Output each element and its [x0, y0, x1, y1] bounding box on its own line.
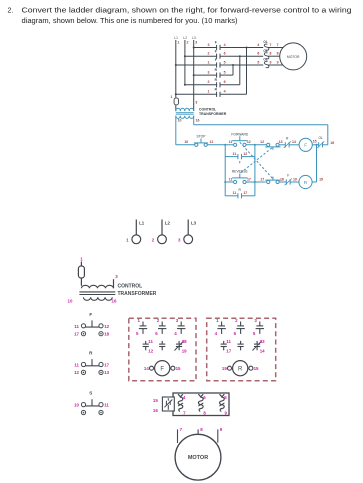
contactor F main contact 2-6 — [161, 322, 163, 326]
contactor R aux contact 1 — [223, 341, 225, 344]
wire left rail (control) — [175, 116, 177, 145]
svg-text:17: 17 — [226, 348, 231, 353]
overload relay block (wiring) — [173, 393, 229, 416]
svg-text:Convert the ladder diagram, sh: Convert the ladder diagram, shown on the… — [22, 8, 352, 15]
wire 15 — [312, 144, 318, 146]
wire rung R out — [220, 84, 240, 86]
svg-text:15: 15 — [313, 140, 317, 144]
svg-text:diagram, shown below. This one: diagram, shown below. This one is number… — [22, 18, 238, 25]
svg-text:18: 18 — [182, 339, 187, 344]
svg-text:17: 17 — [104, 363, 109, 368]
svg-text:11: 11 — [74, 324, 79, 329]
svg-text:L2: L2 — [183, 36, 187, 40]
wire 5 to OL3 — [220, 64, 263, 66]
svg-text:F: F — [89, 312, 92, 317]
svg-text:FORWARD: FORWARD — [231, 132, 248, 136]
svg-text:15: 15 — [176, 366, 181, 371]
wire rung F 1 — [176, 64, 217, 66]
svg-text:6: 6 — [257, 52, 259, 56]
svg-text:5: 5 — [224, 71, 226, 75]
svg-text:1: 1 — [208, 60, 210, 64]
svg-text:TRANSFORMER: TRANSFORMER — [118, 291, 157, 297]
contact R holding (11-17) — [237, 193, 239, 198]
wire right rail (control) — [327, 125, 329, 145]
contact F (1-5) — [216, 62, 218, 67]
svg-text:REVERSE: REVERSE — [232, 170, 249, 174]
svg-text:F: F — [239, 160, 241, 164]
transformer core (wiring) — [79, 291, 115, 293]
junction L2-rung5 — [184, 84, 186, 86]
svg-text:5: 5 — [224, 60, 226, 64]
junction L3-rung4 — [193, 74, 195, 76]
contact R (2-6) — [216, 82, 218, 87]
svg-text:STOP: STOP — [197, 135, 207, 139]
coil R — [299, 175, 312, 188]
svg-text:16: 16 — [330, 141, 334, 145]
svg-text:18: 18 — [104, 332, 109, 337]
wire aux R rung — [225, 195, 238, 197]
svg-text:CONTROL: CONTROL — [118, 284, 143, 290]
svg-text:15: 15 — [254, 366, 259, 371]
motor lead 7 — [177, 429, 179, 443]
svg-text:11: 11 — [210, 140, 214, 144]
wire 4 to OL1 — [220, 47, 263, 49]
svg-text:2.: 2. — [8, 8, 14, 15]
svg-text:13: 13 — [279, 140, 283, 144]
svg-text:19: 19 — [222, 366, 227, 371]
svg-text:7: 7 — [270, 43, 272, 47]
svg-text:OL: OL — [263, 58, 267, 62]
transformer core (ladder) — [176, 112, 194, 114]
wire branch 12/17 (right) — [254, 145, 256, 196]
wire 19 — [290, 181, 299, 183]
svg-text:MOTOR: MOTOR — [188, 455, 208, 461]
svg-text:R: R — [238, 366, 243, 372]
svg-text:16: 16 — [112, 299, 117, 304]
junction L1-rung6 — [175, 93, 177, 95]
wire to motor — [268, 64, 283, 66]
svg-text:16: 16 — [196, 119, 200, 123]
svg-text:F: F — [215, 41, 217, 45]
svg-text:9: 9 — [270, 60, 272, 64]
svg-text:13: 13 — [260, 339, 265, 344]
contact R (1-4) — [216, 92, 218, 97]
svg-text:F: F — [304, 143, 307, 149]
svg-text:MOTOR: MOTOR — [287, 55, 300, 59]
coil F — [299, 138, 312, 151]
svg-text:2: 2 — [208, 80, 210, 84]
wire 13 — [279, 144, 285, 146]
svg-text:4: 4 — [224, 90, 226, 94]
svg-text:TRANSFORMER: TRANSFORMER — [199, 112, 227, 116]
svg-text:S: S — [89, 391, 92, 396]
svg-text:19: 19 — [293, 177, 297, 181]
control transformer secondary (wiring) — [83, 297, 112, 300]
wire rung F 3 — [194, 47, 217, 49]
svg-text:3: 3 — [195, 40, 197, 44]
wire 17 — [246, 181, 266, 183]
svg-text:8: 8 — [270, 52, 272, 56]
svg-text:10: 10 — [74, 403, 79, 408]
svg-text:L3: L3 — [191, 220, 197, 225]
svg-text:10: 10 — [68, 299, 73, 304]
motor MOTOR (wiring) — [175, 434, 221, 480]
wire L1 rail — [175, 40, 177, 98]
svg-text:14: 14 — [260, 348, 265, 353]
svg-text:3: 3 — [208, 43, 210, 47]
svg-text:R: R — [304, 180, 308, 186]
svg-text:15: 15 — [153, 398, 158, 403]
wire 16 — [323, 144, 328, 146]
contactor R main contact 2-6 — [240, 322, 242, 326]
wire 15 from R coil — [312, 181, 316, 183]
contactor R aux contact 3 — [256, 341, 258, 344]
svg-text:L1: L1 — [174, 36, 178, 40]
junction L2-rung2 — [184, 55, 186, 57]
svg-text:10: 10 — [184, 140, 188, 144]
control transformer secondary (ladder) — [176, 116, 194, 119]
pushbutton FORWARD NC part (17-18) — [267, 180, 270, 183]
control transformer primary (wiring) — [81, 285, 113, 288]
wire rung R out — [220, 93, 247, 95]
wire 10 — [176, 144, 195, 146]
wire rung R 1 — [176, 93, 217, 95]
contact F (3-4) — [216, 45, 218, 50]
contactor F aux contact 1 — [145, 341, 147, 344]
svg-text:19: 19 — [182, 348, 187, 353]
wire 6 crossover — [239, 56, 241, 85]
OL NC contact 15-16 (wiring) — [162, 397, 174, 411]
wire aux F rung — [225, 156, 238, 158]
svg-text:12: 12 — [260, 140, 264, 144]
svg-text:1: 1 — [170, 95, 172, 99]
svg-text:9: 9 — [277, 60, 279, 64]
svg-text:4: 4 — [224, 43, 226, 47]
svg-text:14: 14 — [144, 366, 149, 371]
svg-text:L1: L1 — [139, 220, 145, 225]
motor M (ladder) — [280, 43, 307, 70]
contactor F coil — [155, 361, 170, 376]
OL heater 6-8 (wiring) — [198, 394, 203, 411]
svg-text:11: 11 — [226, 339, 231, 344]
svg-text:14: 14 — [292, 140, 296, 144]
svg-text:11: 11 — [104, 403, 109, 408]
wire reverse rung — [225, 181, 233, 183]
svg-text:6: 6 — [224, 80, 226, 84]
OL heater 5-9 (wiring) — [220, 394, 225, 411]
contactor R main contact 1-4 — [221, 322, 223, 326]
contactor R main contact 3-5 — [259, 322, 261, 326]
svg-text:7: 7 — [277, 43, 279, 47]
wire 18 — [279, 181, 286, 183]
svg-text:2: 2 — [187, 40, 189, 44]
wire 11 — [207, 144, 233, 146]
svg-text:17: 17 — [247, 177, 251, 181]
wire 12 — [246, 144, 267, 146]
svg-text:3: 3 — [208, 71, 210, 75]
svg-text:OL: OL — [318, 136, 323, 140]
svg-text:L2: L2 — [165, 220, 171, 225]
svg-text:6: 6 — [224, 52, 226, 56]
motor lead 9 — [217, 429, 219, 442]
svg-text:17: 17 — [243, 191, 247, 195]
svg-text:1: 1 — [208, 90, 210, 94]
junction L3-rung1 — [193, 47, 195, 49]
contactor F aux contact 2 — [161, 341, 163, 344]
wire to motor — [268, 55, 280, 57]
svg-text:1: 1 — [177, 40, 179, 44]
mechanical interlock dashed link A — [240, 142, 274, 179]
control transformer primary (ladder) — [176, 108, 194, 111]
svg-text:11: 11 — [229, 177, 233, 181]
contactor F aux contact 3 — [178, 341, 180, 344]
contactor R dashed enclosure — [207, 318, 276, 381]
svg-text:11: 11 — [148, 339, 153, 344]
svg-text:OL: OL — [263, 40, 267, 44]
svg-text:8: 8 — [277, 52, 279, 56]
wire rung R 3 — [194, 74, 217, 76]
svg-text:L3: L3 — [192, 36, 196, 40]
svg-text:F: F — [287, 174, 289, 178]
svg-text:2: 2 — [208, 52, 210, 56]
contactor F dashed enclosure — [129, 318, 196, 381]
svg-text:15: 15 — [319, 177, 323, 181]
wire 14 — [289, 144, 299, 146]
wire rung R 2 — [185, 84, 217, 86]
svg-text:12: 12 — [74, 370, 79, 375]
contactor F main contact 1-5 — [142, 322, 144, 326]
svg-text:11: 11 — [229, 140, 233, 144]
wire L3 rail — [193, 40, 195, 111]
svg-text:F: F — [215, 58, 217, 62]
contact F holding (11-12) — [237, 154, 239, 159]
wire 6 to OL2 — [220, 55, 263, 57]
contactor F main contact 3-4 — [180, 322, 182, 326]
pushbutton REVERSE NC part (12-13) — [267, 143, 270, 146]
contactor R aux contact 2 — [240, 341, 242, 344]
svg-text:11: 11 — [74, 363, 79, 368]
contact F (2-6) — [216, 54, 218, 59]
svg-text:12: 12 — [148, 348, 153, 353]
svg-text:11: 11 — [232, 191, 236, 195]
svg-text:10: 10 — [178, 119, 182, 123]
junction L1-rung3 — [175, 64, 177, 66]
wire 4 crossover — [246, 48, 248, 95]
svg-text:11: 11 — [232, 152, 236, 156]
wire 16 secondary to right rail — [193, 116, 195, 125]
svg-text:4: 4 — [257, 43, 259, 47]
svg-text:F: F — [160, 366, 164, 372]
wire branch 11 (left) — [224, 145, 226, 196]
wire L2 rail — [184, 40, 186, 85]
mechanical interlock dashed link B — [241, 147, 273, 173]
wire rung F 2 — [185, 55, 217, 57]
motor lead 8 — [197, 429, 199, 434]
svg-text:12: 12 — [104, 324, 109, 329]
svg-text:12: 12 — [247, 140, 251, 144]
wire rung R out — [220, 74, 233, 76]
svg-text:3: 3 — [195, 100, 197, 104]
wire 5 crossover — [232, 65, 234, 75]
svg-text:16: 16 — [153, 408, 158, 413]
wire to motor — [268, 47, 283, 49]
svg-text:12: 12 — [243, 152, 247, 156]
svg-text:OL: OL — [263, 49, 267, 53]
svg-text:17: 17 — [260, 177, 264, 181]
OL heater 4-7 (wiring) — [178, 394, 183, 411]
contactor R coil — [233, 361, 248, 376]
svg-text:5: 5 — [257, 60, 259, 64]
contact R (3-5) — [216, 73, 218, 78]
svg-text:17: 17 — [74, 332, 79, 337]
svg-text:13: 13 — [104, 370, 109, 375]
svg-text:18: 18 — [280, 177, 284, 181]
svg-text:F: F — [215, 49, 217, 53]
